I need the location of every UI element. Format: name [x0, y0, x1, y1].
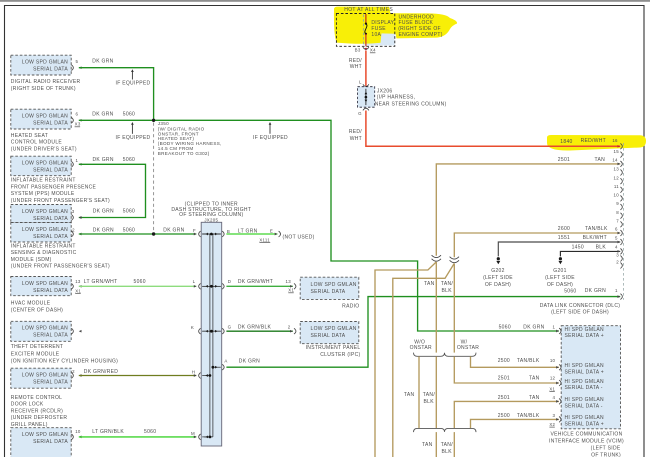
svg-text:VEHICLE COMMUNICATION: VEHICLE COMMUNICATION	[550, 432, 622, 438]
svg-text:15: 15	[614, 149, 620, 154]
wire 2501 TAN (W/ ONSTAR) to VCIM pin 12	[454, 356, 559, 383]
wire RED/WHT from fuse B3 to JX206 pin L	[365, 51, 367, 87]
VCIM pin 3 terminal (HI SPD GMLAN SERIAL DATA +)	[559, 417, 561, 423]
DLC pin 12 terminal	[620, 178, 622, 184]
svg-text:LOW SPD GMLAN: LOW SPD GMLAN	[22, 326, 68, 332]
svg-text:SENSING & DIAGNOSTIC: SENSING & DIAGNOSTIC	[11, 250, 77, 256]
svg-text:TAN/: TAN/	[441, 442, 454, 448]
wire DK GRN/WHT from JX205 pin D to RADIO pin 13	[226, 285, 292, 287]
svg-text:14: 14	[612, 157, 618, 162]
module: THEFT DETERRENT EXCITER MODULE (LOW SPD GMLAN SERIAL DATA box)	[11, 321, 71, 341]
svg-text:(UNDER DEFROSTER: (UNDER DEFROSTER	[11, 415, 68, 421]
svg-text:INFLATABLE RESTRAINT: INFLATABLE RESTRAINT	[11, 178, 76, 184]
svg-text:H: H	[192, 369, 195, 374]
svg-text:SYSTEM (PPS) MODULE: SYSTEM (PPS) MODULE	[11, 191, 75, 197]
yellow highlighter mark over wire 1840 at DLC pin 16	[547, 135, 646, 151]
svg-text:DK GRN: DK GRN	[92, 59, 113, 65]
svg-text:HEATED SEAT: HEATED SEAT	[11, 133, 48, 139]
break symbol on TAN wire	[432, 255, 441, 261]
svg-text:K: K	[191, 325, 194, 330]
brace (bottom) merging ONSTAR options	[414, 428, 477, 432]
svg-text:10: 10	[614, 193, 620, 198]
svg-text:1: 1	[615, 288, 618, 293]
JX205 row F-B (SDM serial data pass-through)	[199, 231, 201, 237]
svg-text:DK GRN/WHT: DK GRN/WHT	[238, 279, 273, 285]
svg-text:EXCITER MODULE: EXCITER MODULE	[11, 351, 60, 357]
DLC pin 4 terminal	[620, 249, 622, 255]
svg-text:LOW SPD GMLAN: LOW SPD GMLAN	[22, 114, 68, 120]
DLC pin 14 terminal	[620, 161, 622, 167]
JX205 internal bus bars	[209, 234, 211, 437]
svg-text:BREAKOUT TO G302): BREAKOUT TO G302)	[158, 151, 210, 156]
svg-text:BLK: BLK	[442, 288, 453, 294]
svg-text:5060: 5060	[134, 279, 146, 285]
svg-text:1551: 1551	[558, 235, 570, 241]
svg-text:JX206: JX206	[377, 88, 393, 94]
svg-text:SERIAL DATA: SERIAL DATA	[33, 439, 68, 445]
fuse block: UNDERHOOD FUSE BLOCK (box)	[336, 14, 394, 47]
svg-text:4: 4	[615, 245, 618, 250]
svg-text:5060: 5060	[123, 227, 135, 233]
svg-text:DK GRN/BLK: DK GRN/BLK	[238, 325, 272, 331]
svg-text:1: 1	[553, 324, 556, 329]
svg-text:BLK: BLK	[596, 244, 607, 250]
svg-text:5060: 5060	[123, 209, 135, 215]
svg-text:(UNDER DRIVER'S SEAT): (UNDER DRIVER'S SEAT)	[11, 146, 77, 152]
svg-text:IF EQUIPPED: IF EQUIPPED	[116, 80, 151, 86]
svg-text:3: 3	[553, 413, 556, 418]
svg-text:M: M	[191, 431, 195, 436]
svg-text:D: D	[228, 279, 231, 284]
svg-text:SERIAL DATA -: SERIAL DATA -	[565, 404, 603, 410]
svg-text:5060: 5060	[123, 111, 135, 117]
svg-text:(UNDER FRONT PASSENGER'S SEAT): (UNDER FRONT PASSENGER'S SEAT)	[11, 264, 110, 270]
svg-text:BLK/WHT: BLK/WHT	[583, 235, 607, 241]
svg-text:DK GRN/RED: DK GRN/RED	[84, 369, 118, 375]
svg-text:(UNDER FRONT PASSENGER'S SEAT): (UNDER FRONT PASSENGER'S SEAT)	[11, 198, 110, 204]
svg-text:(I/P HARNESS,: (I/P HARNESS,	[377, 95, 416, 101]
svg-text:SERIAL DATA: SERIAL DATA	[33, 380, 68, 386]
svg-text:THEFT DETERRENT: THEFT DETERRENT	[11, 344, 63, 350]
svg-text:LOW SPD GMLAN: LOW SPD GMLAN	[22, 209, 68, 215]
svg-text:2: 2	[616, 260, 619, 265]
svg-text:LOW SPD GMLAN: LOW SPD GMLAN	[22, 161, 68, 167]
DLC pin 6 terminal	[620, 230, 622, 236]
svg-text:SERIAL DATA: SERIAL DATA	[33, 234, 68, 240]
svg-text:X1: X1	[288, 288, 294, 293]
svg-text:LOW SPD GMLAN: LOW SPD GMLAN	[22, 373, 68, 379]
svg-text:5: 5	[615, 235, 618, 240]
DLC pin 11 terminal	[620, 187, 622, 193]
brace (top) splitting ONSTAR options	[414, 353, 477, 357]
svg-text:DK GRN: DK GRN	[92, 111, 113, 117]
svg-text:5060: 5060	[499, 324, 511, 330]
module: bottom module (cut off) (LOW SPD GMLAN SERIAL DATA box)	[11, 428, 71, 457]
module: HEATED SEAT CONTROL MODULE (LOW SPD GMLAN SERIAL DATA box)	[11, 109, 71, 129]
svg-text:TAN/BLK: TAN/BLK	[517, 358, 540, 364]
svg-text:X4: X4	[370, 48, 376, 53]
JX205 row H (from RCDLR)	[199, 373, 201, 379]
svg-text:HI SPD GMLAN: HI SPD GMLAN	[565, 327, 605, 333]
VCIM pin 4 terminal (HI SPD GMLAN SERIAL DATA -)	[559, 399, 561, 405]
svg-text:SERIAL DATA +: SERIAL DATA +	[565, 422, 605, 428]
svg-text:X1: X1	[75, 288, 81, 293]
svg-text:10A: 10A	[371, 32, 381, 38]
svg-text:5: 5	[76, 59, 79, 64]
svg-text:DIGITAL RADIO RECEIVER: DIGITAL RADIO RECEIVER	[11, 79, 81, 85]
VCIM pin 1 terminal (HI SPD GMLAN SERIAL DATA +)	[559, 328, 561, 334]
wire TAN (W/O ONSTAR path)	[418, 356, 420, 428]
splice J350	[152, 119, 155, 122]
svg-text:(LEFT SIDE OF DASH): (LEFT SIDE OF DASH)	[551, 310, 609, 316]
svg-text:2500: 2500	[498, 413, 510, 419]
module: INSTRUMENT PANEL CLUSTER (IPC) (LOW SPD GMLAN SERIAL DATA box)	[300, 322, 359, 344]
svg-text:13: 13	[75, 279, 81, 284]
fuse block output terminal B3 / X4	[365, 48, 368, 51]
DLC pin 5 terminal	[620, 239, 622, 245]
svg-text:ONSTAR: ONSTAR	[410, 345, 432, 351]
wire 2501 TAN from VCIM pin 4 back to brace	[454, 401, 559, 428]
svg-text:TAN: TAN	[529, 395, 540, 401]
svg-text:16: 16	[612, 138, 618, 143]
svg-text:(LEFT SIDE: (LEFT SIDE	[591, 446, 621, 452]
svg-text:13: 13	[614, 167, 620, 172]
wire DK GRN from JX205 pin A to DLC pin 1	[226, 297, 620, 368]
svg-text:LT GRN/WHT: LT GRN/WHT	[84, 279, 118, 285]
svg-text:TAN/: TAN/	[423, 392, 436, 398]
wire 5060 DK GRN pin 6 from HEATED SEAT to splice J350 and on to VCIM pin 1	[79, 120, 559, 331]
svg-text:(NOT USED): (NOT USED)	[283, 234, 315, 240]
svg-text:G202: G202	[491, 268, 504, 274]
svg-text:SERIAL DATA -: SERIAL DATA -	[565, 385, 603, 391]
svg-text:INSTRUMENT PANEL: INSTRUMENT PANEL	[306, 345, 361, 351]
svg-text:LT GRN/BLK: LT GRN/BLK	[92, 429, 124, 435]
DLC pin 16 terminal	[620, 143, 622, 149]
module: HVAC MODULE (LOW SPD GMLAN SERIAL DATA box)	[11, 277, 71, 296]
wire TAN below merge (off-page)	[435, 432, 437, 457]
svg-text:WHT: WHT	[350, 136, 362, 142]
svg-text:RECEIVER (RCDLR): RECEIVER (RCDLR)	[11, 408, 63, 414]
svg-text:HI SPD GMLAN: HI SPD GMLAN	[565, 415, 605, 421]
svg-text:DK GRN: DK GRN	[93, 157, 114, 163]
DLC pin 7 terminal	[620, 221, 622, 227]
connector JX206 (I/P harness)	[358, 87, 375, 108]
splice node on SDM wire (dashed tie to J350)	[152, 232, 155, 235]
svg-text:B3: B3	[355, 48, 361, 53]
svg-text:HI SPD GMLAN: HI SPD GMLAN	[565, 363, 605, 369]
svg-text:OF DASH): OF DASH)	[547, 282, 573, 288]
fuse F1: DISPLAY FUSE 10A (symbol)	[365, 14, 367, 24]
svg-text:11: 11	[614, 184, 619, 189]
svg-text:5060: 5060	[144, 429, 156, 435]
module: REMOTE CONTROL DOOR LOCK RECEIVER (RCDLR) (LOW SPD GMLAN SERIAL DATA box)	[11, 368, 71, 388]
svg-text:BLK: BLK	[424, 399, 435, 405]
svg-text:X3: X3	[75, 122, 81, 127]
DLC pin 1 terminal	[620, 294, 622, 300]
svg-text:LT GRN: LT GRN	[238, 229, 258, 235]
module: RADIO (LOW SPD GMLAN SERIAL DATA box)	[300, 277, 359, 299]
svg-text:LOW SPD GMLAN: LOW SPD GMLAN	[22, 60, 68, 66]
fuse cell fill (under highlighter)	[363, 15, 394, 46]
svg-text:LOW SPD GMLAN: LOW SPD GMLAN	[22, 432, 68, 438]
svg-text:OF DASH): OF DASH)	[485, 282, 511, 288]
DLC pin 9 terminal	[620, 204, 622, 210]
svg-text:LOW SPD GMLAN: LOW SPD GMLAN	[311, 282, 357, 288]
VCIM pin 12 terminal (HI SPD GMLAN SERIAL DATA -)	[559, 380, 561, 386]
ground G201 (LEFT SIDE OF DASH)	[559, 257, 562, 260]
svg-text:FRONT PASSENGER PRESENCE: FRONT PASSENGER PRESENCE	[11, 184, 97, 190]
wire DK GRN pin 5 from DIGITAL RADIO RECEIVER to splice J350	[79, 68, 154, 121]
module: DIGITAL RADIO RECEIVER (LOW SPD GMLAN SERIAL DATA box)	[11, 55, 71, 75]
wire 5060 DK GRN pin 2 from SDM to JX205 pin F	[79, 233, 197, 235]
svg-text:7: 7	[616, 219, 619, 224]
svg-text:2600: 2600	[558, 226, 570, 232]
svg-text:HVAC MODULE: HVAC MODULE	[11, 301, 51, 307]
wire 5060 LT GRN/BLK pin 10 from bottom module to JX205 pin M	[79, 436, 197, 438]
svg-text:6: 6	[76, 112, 79, 117]
svg-text:A: A	[224, 359, 227, 364]
svg-text:BLK: BLK	[442, 449, 453, 455]
svg-text:RADIO: RADIO	[342, 303, 359, 309]
svg-text:TAN: TAN	[594, 157, 605, 163]
wire TAN/BLK below merge (off-page)	[453, 432, 455, 457]
svg-text:LOW SPD GMLAN: LOW SPD GMLAN	[22, 227, 68, 233]
DLC pin 8 terminal	[620, 213, 622, 219]
svg-text:SERIAL DATA +: SERIAL DATA +	[565, 333, 605, 339]
svg-text:GRILL PANEL): GRILL PANEL)	[11, 422, 48, 428]
svg-text:X2: X2	[549, 422, 555, 427]
svg-text:IF EQUIPPED: IF EQUIPPED	[116, 135, 151, 141]
IF EQUIPPED arrow 3	[269, 124, 271, 134]
svg-text:1450: 1450	[572, 244, 584, 250]
svg-text:DK GRN: DK GRN	[523, 324, 544, 330]
module: PPS MODULE pin 3 port (LOW SPD GMLAN SERIAL DATA box)	[11, 205, 71, 223]
VCIM pin 10 terminal (HI SPD GMLAN SERIAL DATA +)	[559, 364, 561, 370]
svg-text:TAN/BLK: TAN/BLK	[585, 226, 608, 232]
ground G202 (LEFT SIDE OF DASH)	[497, 257, 500, 260]
svg-text:(RIGHT SIDE OF TRUNK): (RIGHT SIDE OF TRUNK)	[11, 86, 76, 92]
wire 2500 TAN/BLK from VCIM pin 3 back to brace	[471, 419, 559, 428]
svg-text:SERIAL DATA: SERIAL DATA	[33, 121, 68, 127]
svg-text:5060: 5060	[123, 157, 135, 163]
svg-text:(CENTER OF DASH): (CENTER OF DASH)	[11, 307, 63, 313]
svg-text:9: 9	[616, 201, 619, 206]
svg-text:SERIAL DATA: SERIAL DATA	[33, 67, 68, 73]
svg-text:LOW SPD GMLAN: LOW SPD GMLAN	[22, 281, 68, 287]
svg-text:3: 3	[616, 253, 619, 258]
IF EQUIPPED arrow 1	[131, 71, 133, 79]
svg-text:8: 8	[616, 210, 619, 215]
svg-text:CONTROL MODULE: CONTROL MODULE	[11, 140, 63, 146]
svg-text:TAN/BLK: TAN/BLK	[517, 413, 540, 419]
svg-text:F: F	[193, 228, 196, 233]
svg-text:B: B	[227, 229, 230, 234]
svg-text:OF TRUNK): OF TRUNK)	[591, 453, 621, 457]
module: INFLATABLE RESTRAINT PPS MODULE (LOW SPD GMLAN SERIAL DATA box)	[11, 156, 71, 176]
svg-text:SERIAL DATA: SERIAL DATA	[33, 216, 68, 222]
svg-text:DOOR LOCK: DOOR LOCK	[11, 402, 44, 408]
svg-text:REMOTE CONTROL: REMOTE CONTROL	[11, 395, 62, 401]
svg-text:G201: G201	[553, 268, 566, 274]
svg-text:MODULE (SDM): MODULE (SDM)	[11, 257, 52, 263]
node G (JX206 bottom pin)	[363, 108, 369, 110]
wire TAN continues to W/O-W/ ONSTAR brace	[435, 262, 437, 353]
module: INFLATABLE RESTRAINT SDM (LOW SPD GMLAN SERIAL DATA box)	[11, 223, 71, 243]
wire LT GRN (NOT USED) stub from JX205 pin B	[226, 233, 277, 235]
svg-text:12: 12	[550, 375, 556, 380]
svg-text:2501: 2501	[558, 157, 570, 163]
svg-text:RED/: RED/	[349, 129, 362, 135]
IF EQUIPPED arrow 2	[131, 124, 133, 134]
svg-text:INFLATABLE RESTRAINT: INFLATABLE RESTRAINT	[11, 243, 76, 249]
wire DK GRN/RED pin 2 from RCDLR to JX205 pin H	[79, 375, 197, 377]
svg-text:DK GRN: DK GRN	[93, 227, 114, 233]
svg-text:WHT: WHT	[350, 64, 362, 70]
svg-text:2501: 2501	[498, 395, 510, 401]
wire 1840 RED/WHT from JX206 pin G to DLC pin 16	[366, 111, 620, 147]
JX205 row K-G (THEFT DETERRENT to IPC)	[199, 328, 201, 334]
svg-text:6: 6	[615, 226, 618, 231]
wire 5060 LT GRN/WHT pin 13 from HVAC to JX205 pin L	[79, 285, 197, 287]
svg-text:INTERFACE MODULE (VCIM): INTERFACE MODULE (VCIM)	[549, 439, 624, 445]
svg-text:HI SPD GMLAN: HI SPD GMLAN	[565, 397, 605, 403]
svg-text:SERIAL DATA: SERIAL DATA	[311, 289, 346, 295]
svg-text:X1: X1	[549, 386, 555, 391]
DLC pin 3 terminal	[620, 256, 622, 262]
svg-text:HI SPD GMLAN: HI SPD GMLAN	[565, 379, 605, 385]
JX205 row L-D (HVAC to RADIO)	[199, 283, 201, 289]
svg-text:X111: X111	[259, 237, 270, 242]
wire TAN/BLK branch (off-page) joining 2600 at break	[393, 263, 455, 457]
svg-text:TAN: TAN	[424, 281, 435, 287]
svg-text:2500: 2500	[498, 358, 510, 364]
yellow highlighter mark over fuse block	[334, 7, 457, 44]
DLC pin 13 terminal	[620, 170, 622, 176]
svg-text:SERIAL DATA: SERIAL DATA	[33, 333, 68, 339]
wire TAN/BLK (W/O ONSTAR path)	[435, 356, 437, 428]
svg-text:DK GRN: DK GRN	[93, 209, 114, 215]
svg-text:12: 12	[614, 175, 620, 180]
svg-text:ONSTAR: ONSTAR	[457, 345, 479, 351]
wire 5060 DK GRN pin 1 PPS loop to pin 3	[79, 164, 146, 217]
svg-text:2: 2	[72, 227, 75, 232]
svg-text:2: 2	[288, 325, 291, 330]
svg-text:4: 4	[553, 395, 556, 400]
svg-text:E: E	[270, 229, 273, 234]
svg-text:DK GRN: DK GRN	[585, 288, 606, 294]
JX205 row M (from bottom module)	[199, 434, 201, 440]
break symbol on TAN/BLK wire	[450, 257, 459, 263]
svg-text:LOW SPD GMLAN: LOW SPD GMLAN	[311, 326, 357, 332]
svg-text:ENGINE COMPT): ENGINE COMPT)	[399, 32, 443, 38]
wire 2500 TAN/BLK (W/ ONSTAR) to VCIM pin 10	[471, 356, 559, 367]
wire 2600 TAN/BLK from DLC pin 6 down to ONSTAR split	[454, 233, 620, 257]
svg-text:10: 10	[75, 429, 81, 434]
svg-text:IF EQUIPPED: IF EQUIPPED	[253, 135, 288, 141]
svg-text:DK GRN: DK GRN	[239, 359, 260, 365]
DLC pin 15 terminal	[620, 152, 622, 158]
svg-text:SERIAL DATA: SERIAL DATA	[33, 168, 68, 174]
wire 1450 BLK from DLC pin 4 to ground G201	[560, 251, 620, 256]
svg-text:SERIAL DATA: SERIAL DATA	[33, 288, 68, 294]
svg-text:SERIAL DATA +: SERIAL DATA +	[565, 369, 605, 375]
svg-text:5060: 5060	[564, 288, 576, 294]
DLC pin 2 terminal	[620, 263, 622, 269]
svg-text:1: 1	[76, 158, 79, 163]
svg-text:DATA LINK CONNECTOR (DLC): DATA LINK CONNECTOR (DLC)	[540, 303, 621, 309]
svg-text:G: G	[358, 111, 362, 116]
svg-text:SERIAL DATA: SERIAL DATA	[311, 333, 346, 339]
svg-text:(LEFT SIDE: (LEFT SIDE	[545, 275, 575, 281]
svg-text:G: G	[228, 325, 232, 330]
svg-text:3: 3	[72, 209, 75, 214]
wire 1551 BLK/WHT from DLC pin 5 to ground G202	[498, 242, 620, 256]
svg-text:RED/WHT: RED/WHT	[581, 138, 606, 144]
svg-text:HOT AT ALL TIMES: HOT AT ALL TIMES	[344, 7, 393, 13]
module: VEHICLE COMMUNICATION INTERFACE MODULE (VCIM) box	[561, 326, 620, 429]
svg-text:RED/: RED/	[349, 58, 362, 64]
svg-text:NEAR STEERING COLUMN): NEAR STEERING COLUMN)	[375, 101, 447, 107]
svg-text:2: 2	[72, 369, 75, 374]
svg-text:L: L	[193, 279, 196, 284]
wire DK GRN/BLK from JX205 pin G to INSTRUMENT PANEL CLUSTER pin 2	[226, 330, 292, 332]
svg-text:1840: 1840	[560, 139, 572, 145]
svg-text:(ON IGNITION KEY CYLINDER HOUS: (ON IGNITION KEY CYLINDER HOUSING)	[11, 358, 118, 364]
wire 2501 TAN from DLC pin 14 down to ONSTAR split	[436, 164, 620, 256]
svg-text:DK GRN: DK GRN	[163, 227, 184, 233]
svg-text:10: 10	[550, 358, 556, 363]
DLC pin 10 terminal	[620, 196, 622, 202]
svg-text:TAN: TAN	[404, 392, 415, 398]
JX205 row A (to DLC pin 1)	[213, 366, 221, 368]
connector DLC bracket (dashed)	[622, 143, 624, 300]
svg-text:CLUSTER (IPC): CLUSTER (IPC)	[320, 352, 360, 358]
svg-text:2501: 2501	[498, 375, 510, 381]
svg-text:TAN: TAN	[422, 442, 433, 448]
svg-text:13: 13	[286, 279, 292, 284]
svg-text:(LEFT SIDE: (LEFT SIDE	[483, 275, 513, 281]
svg-text:FUSE BLOCK: FUSE BLOCK	[399, 20, 434, 26]
wire TAN branch (off-page) joining 2501 at break	[375, 262, 436, 457]
wire TAN/BLK continues to W/O-W/ ONSTAR brace	[453, 264, 455, 353]
svg-text:L: L	[359, 80, 362, 85]
svg-text:TAN/: TAN/	[441, 281, 454, 287]
svg-text:TAN: TAN	[529, 375, 540, 381]
